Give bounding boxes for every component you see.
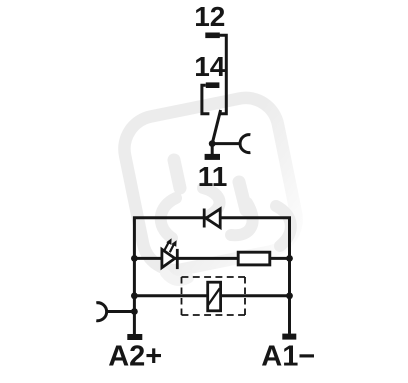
node A2 tap (131, 308, 138, 315)
node bottom left (131, 292, 138, 299)
watermark wave b (203, 188, 220, 216)
wire from 12 down to NC contact (219, 35, 226, 113)
svg-text:11: 11 (198, 161, 228, 192)
diode D1 triangle (206, 209, 220, 228)
svg-text:12: 12 (194, 1, 225, 32)
resistor R1 (238, 252, 270, 265)
watermark wave a (161, 198, 176, 238)
node middle left (131, 255, 138, 262)
terminal 11 (205, 154, 220, 160)
watermark wave e (165, 273, 189, 281)
diode D1 cathode bar (203, 209, 206, 228)
svg-text:A2+: A2+ (108, 340, 162, 372)
coil diagonal (208, 288, 220, 305)
terminal A1 (282, 334, 296, 340)
socket hook left (A2 side) (96, 303, 106, 321)
svg-text:A1−: A1− (261, 340, 315, 372)
wire junction to socket (214, 142, 240, 145)
LED cathode bar (176, 249, 179, 269)
LED arrows (164, 238, 176, 252)
wire down to terminal A1 (288, 296, 291, 334)
wire from 14 down to NO contact (202, 85, 210, 114)
watermark finger right (239, 182, 246, 210)
svg-text:14: 14 (194, 51, 226, 82)
watermark rounded square (119, 92, 303, 276)
relay coil K1 (208, 282, 221, 311)
middle wire (134, 257, 289, 260)
wire down to terminal A2 (133, 296, 136, 334)
watermark wave d (276, 206, 291, 246)
LED triangle (162, 249, 175, 267)
contact lever (212, 110, 220, 144)
terminal 12 (205, 33, 220, 39)
watermark wave c (231, 203, 253, 235)
terminal A2 (127, 334, 142, 340)
terminal 14 (206, 82, 220, 88)
bottom wire (134, 294, 289, 297)
watermark finger left (174, 160, 180, 188)
top wire (134, 218, 289, 296)
junction node 11 (209, 140, 216, 147)
node middle right (286, 255, 293, 262)
socket hook right (contact side) (240, 135, 250, 153)
node bottom right (286, 292, 293, 299)
wire socket to A2 rail (107, 310, 134, 313)
wire junction to terminal 11 (211, 144, 214, 155)
relay dashed box (182, 277, 246, 315)
